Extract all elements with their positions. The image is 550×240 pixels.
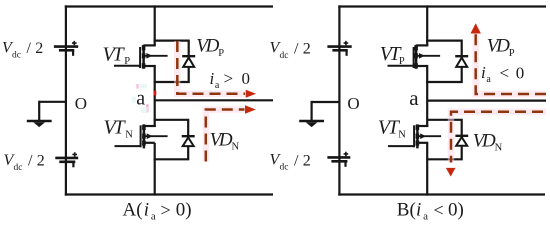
svg-text:i: i xyxy=(416,200,421,221)
svg-text:0: 0 xyxy=(242,69,251,88)
svg-text:B(: B( xyxy=(397,200,416,221)
svg-text:dc: dc xyxy=(12,51,21,61)
svg-text:/: / xyxy=(294,41,299,58)
svg-text:i: i xyxy=(144,200,149,221)
diode VD_P B xyxy=(455,56,468,67)
capacitor lower Vdc/2 A xyxy=(55,152,78,167)
diode loop VD_N B xyxy=(427,120,462,160)
wire node a output A xyxy=(155,99,273,101)
svg-text:P: P xyxy=(218,48,224,59)
svg-text:/: / xyxy=(28,153,33,170)
label VT_P A xyxy=(103,43,131,67)
wire bottom rail B xyxy=(338,193,545,195)
label VD_N B xyxy=(473,130,503,153)
svg-text:dc: dc xyxy=(280,163,289,173)
diode loop VD_P B xyxy=(426,41,462,82)
wire source to node a A xyxy=(154,65,156,127)
svg-text:>: > xyxy=(224,69,234,88)
svg-text:0): 0) xyxy=(448,200,464,221)
svg-text:<: < xyxy=(434,200,444,220)
label ia<0 B xyxy=(481,63,524,85)
wire source to node a B xyxy=(426,65,428,127)
svg-text:N: N xyxy=(398,130,406,141)
label Vdc/2 lower B xyxy=(270,152,311,173)
svg-text:/: / xyxy=(294,152,299,169)
svg-text:O: O xyxy=(347,94,359,113)
label VD_N A xyxy=(210,129,240,152)
svg-text:a: a xyxy=(423,210,428,222)
svg-text:i: i xyxy=(210,69,215,88)
svg-text:2: 2 xyxy=(35,40,43,57)
svg-text:N: N xyxy=(495,143,503,154)
svg-text:0: 0 xyxy=(516,64,525,83)
current path VT_P A xyxy=(177,41,256,98)
label VD_P A xyxy=(196,36,224,59)
transistor VT_N A xyxy=(115,124,168,148)
label Vdc/2 upper A xyxy=(2,39,43,60)
svg-text:2: 2 xyxy=(303,152,311,169)
svg-text:a: a xyxy=(409,86,419,110)
svg-text:dc: dc xyxy=(14,163,23,173)
diode VD_N B xyxy=(455,136,468,146)
ground A xyxy=(27,101,66,127)
svg-text:N: N xyxy=(232,142,240,153)
label VD_P B xyxy=(487,35,515,58)
wire node a output B xyxy=(427,99,546,101)
svg-text:A(: A( xyxy=(123,200,143,221)
diode VD_P A xyxy=(182,56,195,67)
current path VD_N A xyxy=(206,105,256,161)
diode loop VD_P A xyxy=(154,41,189,82)
svg-text:O: O xyxy=(75,94,87,113)
caption B xyxy=(397,200,464,223)
label ia>0 A xyxy=(210,69,251,91)
wire leg drain A xyxy=(154,5,156,45)
wire leg bottom B xyxy=(426,143,428,196)
label VT_N B xyxy=(378,116,406,140)
svg-text:<: < xyxy=(500,64,510,83)
capacitor upper Vdc/2 B xyxy=(327,41,351,56)
capacitor upper Vdc/2 A xyxy=(54,41,78,56)
svg-text:2: 2 xyxy=(303,41,311,58)
svg-text:P: P xyxy=(399,56,405,67)
caption A xyxy=(123,200,192,223)
wire leg drain B xyxy=(426,5,428,45)
wire bottom rail A xyxy=(65,193,273,195)
wire left rail B xyxy=(338,5,340,195)
svg-text:dc: dc xyxy=(280,51,289,61)
current path VT_N B xyxy=(446,112,546,177)
diode loop VD_N A xyxy=(154,120,189,160)
svg-text:N: N xyxy=(125,130,133,141)
label VT_P B xyxy=(380,43,405,67)
svg-text:P: P xyxy=(124,56,130,67)
transistor VT_P B xyxy=(388,45,441,69)
capacitor lower Vdc/2 B xyxy=(327,152,350,167)
current path VD_P B xyxy=(471,23,547,94)
svg-text:a: a xyxy=(151,210,156,222)
jpeg artifact marks near node a A xyxy=(132,84,149,113)
svg-text:P: P xyxy=(509,48,515,59)
wire left rail A xyxy=(65,5,67,195)
svg-text:>: > xyxy=(161,200,171,220)
diode VD_N A xyxy=(182,136,195,146)
label Vdc/2 upper B xyxy=(270,40,311,61)
wire top rail A xyxy=(65,5,273,7)
svg-text:i: i xyxy=(481,63,486,82)
transistor VT_P A xyxy=(114,45,168,69)
wire leg bottom A xyxy=(154,143,156,196)
label Vdc/2 lower A xyxy=(4,152,45,173)
ground B xyxy=(299,101,339,127)
svg-text:a: a xyxy=(136,87,145,109)
svg-text:0): 0) xyxy=(176,200,192,221)
transistor VT_N B xyxy=(388,124,441,148)
svg-text:a: a xyxy=(215,80,220,91)
svg-text:2: 2 xyxy=(37,153,45,170)
wire top rail B xyxy=(338,5,546,7)
svg-text:a: a xyxy=(486,74,491,85)
current marker node a A xyxy=(154,91,156,96)
label VT_N A xyxy=(104,116,134,140)
svg-text:/: / xyxy=(27,40,32,57)
